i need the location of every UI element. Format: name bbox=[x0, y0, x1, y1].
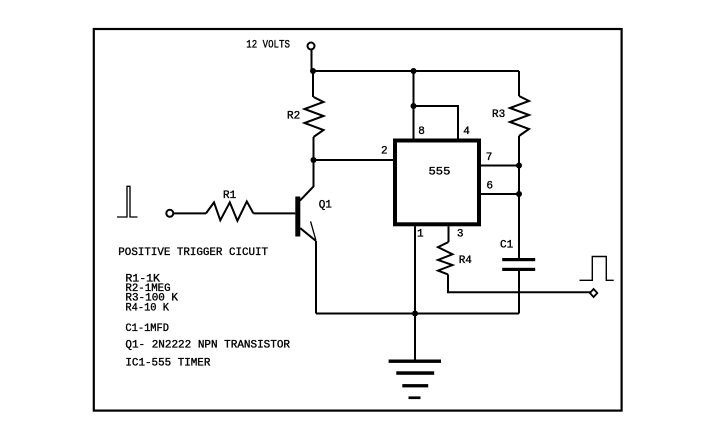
svg-text:R3: R3 bbox=[492, 109, 505, 121]
svg-text:R1: R1 bbox=[223, 190, 237, 202]
svg-text:IC1-555 TIMER: IC1-555 TIMER bbox=[125, 358, 210, 370]
svg-text:C1: C1 bbox=[500, 239, 514, 251]
svg-text:1: 1 bbox=[417, 229, 424, 241]
svg-text:Q1: Q1 bbox=[319, 200, 333, 212]
svg-text:8: 8 bbox=[418, 126, 425, 138]
svg-text:4: 4 bbox=[463, 126, 470, 138]
svg-text:R2: R2 bbox=[287, 111, 300, 123]
svg-text:3: 3 bbox=[457, 229, 464, 241]
svg-text:R4: R4 bbox=[459, 255, 473, 267]
svg-text:555: 555 bbox=[429, 167, 451, 179]
svg-text:C1-1MFD: C1-1MFD bbox=[125, 323, 169, 335]
svg-text:6: 6 bbox=[486, 181, 493, 193]
svg-text:2: 2 bbox=[381, 145, 388, 157]
svg-text:Q1- 2N2222 NPN TRANSISTOR: Q1- 2N2222 NPN TRANSISTOR bbox=[125, 339, 290, 351]
svg-text:R4-10 K: R4-10 K bbox=[125, 302, 169, 314]
svg-text:POSITIVE TRIGGER CICUIT: POSITIVE TRIGGER CICUIT bbox=[118, 247, 268, 259]
svg-text:12 VOLTS: 12 VOLTS bbox=[246, 40, 290, 52]
svg-text:7: 7 bbox=[486, 152, 493, 164]
